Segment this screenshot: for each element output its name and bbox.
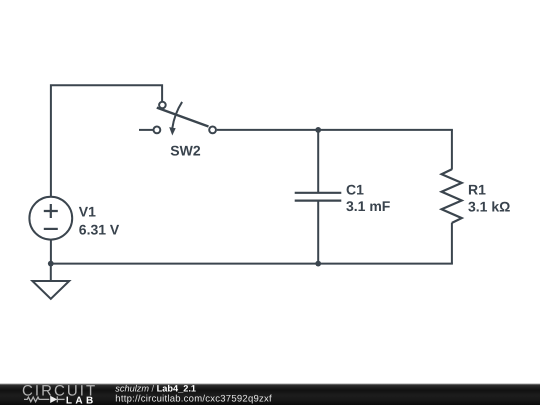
footer bar bbox=[0, 384, 540, 405]
switch SW2 bbox=[154, 102, 217, 136]
CircuitLab logo resistor-diode glyph bbox=[24, 396, 65, 402]
svg-text:R1: R1 bbox=[468, 182, 486, 198]
svg-text:6.31 V: 6.31 V bbox=[79, 221, 120, 237]
wire C1 bottom lead bbox=[317, 201, 319, 264]
node junction at C1 bottom bbox=[315, 261, 321, 267]
wire SW2 right terminal to R1 bbox=[217, 129, 453, 131]
node junction at C1 top bbox=[315, 127, 321, 133]
svg-text:LAB: LAB bbox=[66, 396, 97, 405]
wire R1 bottom lead bbox=[451, 223, 453, 264]
voltage source V1 bbox=[29, 197, 72, 240]
wire bottom rail bbox=[51, 263, 453, 265]
wire V1 top to SW2 top terminal bbox=[51, 85, 162, 196]
svg-text:3.1 mF: 3.1 mF bbox=[346, 198, 391, 214]
svg-text:SW2: SW2 bbox=[170, 142, 201, 158]
wire R1 top lead bbox=[451, 130, 453, 170]
wire V1 bottom lead bbox=[50, 239, 52, 264]
CircuitLab logo diode triangle bbox=[50, 396, 57, 403]
wire C1 top lead bbox=[317, 130, 319, 193]
svg-text:http://circuitlab.com/cxc37592: http://circuitlab.com/cxc37592q9zxf bbox=[115, 393, 272, 404]
svg-text:C1: C1 bbox=[346, 181, 364, 197]
svg-text:schulzm / Lab4_2.1: schulzm / Lab4_2.1 bbox=[115, 384, 196, 394]
resistor R1 bbox=[442, 169, 462, 223]
ground bbox=[32, 264, 69, 299]
capacitor C1 bbox=[295, 193, 342, 201]
svg-text:3.1 kΩ: 3.1 kΩ bbox=[468, 198, 510, 214]
node junction at V1 bottom bbox=[48, 261, 54, 267]
svg-text:V1: V1 bbox=[79, 203, 96, 219]
wire SW2 left stub bbox=[139, 129, 153, 131]
